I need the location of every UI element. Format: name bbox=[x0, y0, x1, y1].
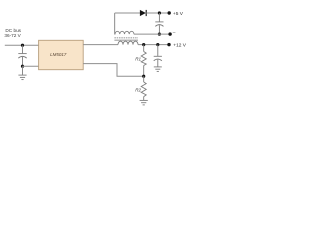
junction: C-in bottom / GND pin wire bbox=[21, 65, 24, 68]
terminal: +12V output bbox=[167, 43, 170, 46]
capacitor C-out5 (polarized, +5V output cap) bbox=[155, 13, 163, 34]
junction: input rail / C-in top bbox=[21, 44, 24, 47]
capacitor C-out12 (polarized, +12V output cap) bbox=[154, 45, 162, 67]
net label: DC bus 36-72 V bbox=[4, 28, 21, 38]
wire: C-in bottom to U1 GND pin bbox=[23, 65, 39, 67]
svg-text:LM5017: LM5017 bbox=[50, 52, 67, 57]
junction: +5V rail / C-out5 top bbox=[158, 11, 161, 14]
op-amp/regulator U1 LM5017 (IC box) bbox=[39, 40, 84, 69]
junction: feedback divider node bbox=[142, 75, 145, 78]
wire: DC bus input rail bbox=[5, 44, 39, 46]
transformer T1 primary winding (bottom) bbox=[118, 41, 138, 44]
svg-text:R1: R1 bbox=[135, 56, 141, 61]
transformer T1 secondary winding (top) bbox=[115, 13, 134, 34]
junction: +12V rail / R1 top bbox=[142, 43, 145, 46]
resistor R1 bbox=[141, 45, 146, 77]
wire: U1 SW pin to transformer primary bbox=[83, 44, 118, 46]
wire: minus return rail bbox=[134, 33, 170, 35]
wire: U1 FB pin to R1/R2 divider node bbox=[83, 64, 144, 77]
svg-text:R2: R2 bbox=[135, 88, 141, 93]
svg-text:–: – bbox=[173, 31, 176, 36]
terminal: +5V output bbox=[168, 11, 171, 14]
wire: +5V rail (riser top to diode anode) bbox=[115, 12, 140, 14]
svg-text:+12 V: +12 V bbox=[173, 42, 186, 48]
capacitor C-in (polarized, input bulk cap) bbox=[18, 45, 26, 66]
ground: input ground symbol bbox=[18, 66, 26, 79]
wire: diode cathode to +5V terminal bbox=[146, 12, 169, 14]
svg-text:+5 V: +5 V bbox=[173, 11, 184, 17]
ground: C-out12 ground symbol bbox=[154, 67, 162, 72]
junction: minus rail / C-out5 bottom bbox=[158, 33, 161, 36]
resistor R2 bbox=[141, 76, 146, 100]
wire: +12V rail (primary right lead to terminal) bbox=[138, 44, 169, 46]
transformer T1 core bbox=[114, 37, 138, 39]
terminal: minus output bbox=[168, 32, 171, 35]
diode D1 bbox=[140, 10, 146, 16]
ground: R2 ground symbol bbox=[140, 100, 148, 105]
junction: +12V rail / C-out12 top bbox=[156, 43, 159, 46]
svg-text:36-72 V: 36-72 V bbox=[4, 33, 21, 38]
